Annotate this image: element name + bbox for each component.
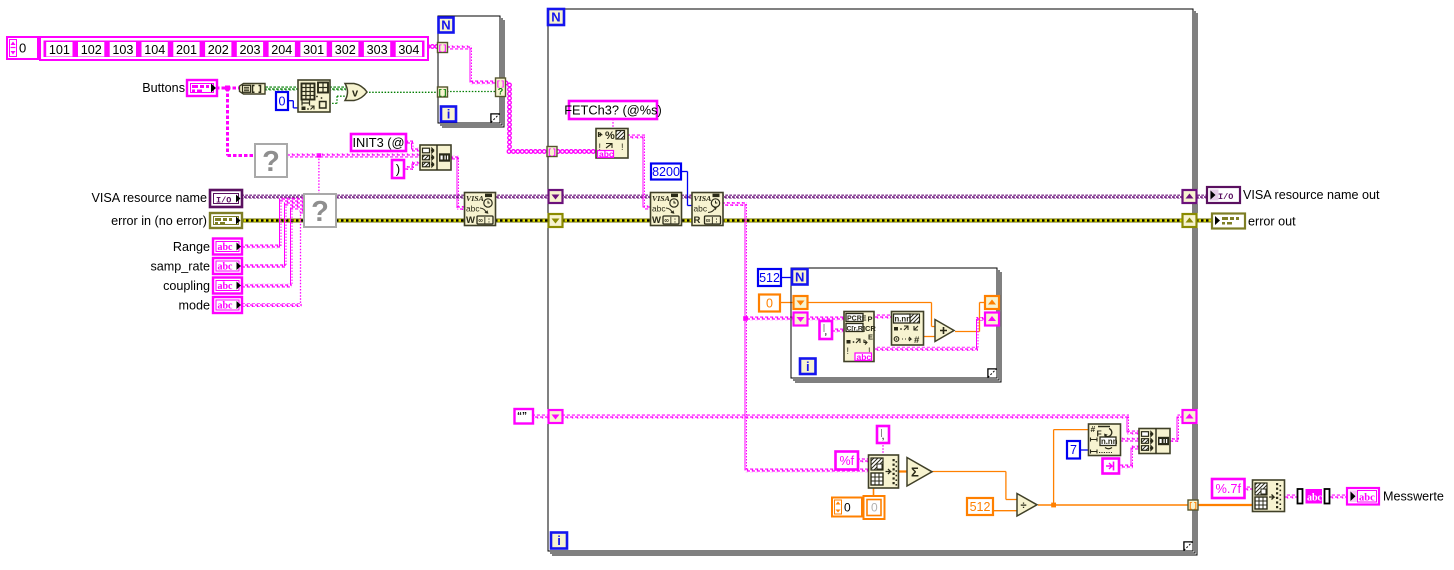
wire: read buffer to Spreadsheet String To Array — [746, 469, 870, 473]
wire: error VISA Write 1 to left shift register — [495, 219, 549, 223]
svg-text:?: ? — [498, 87, 504, 97]
small for-loop left tunnel (boolean) — [438, 87, 448, 98]
svg-text:#: # — [1091, 424, 1096, 434]
main for-loop frame — [548, 9, 1197, 555]
wire: string to Messwerte — [1328, 495, 1348, 499]
wire: string shift register to Match Pattern — [806, 317, 845, 321]
function Concatenate Strings 3 — [1139, 429, 1170, 454]
array constant 0 (array type) — [832, 496, 885, 519]
wire: %f format to Spreadsheet String To Array — [857, 458, 869, 462]
small for-loop iteration terminal i — [441, 107, 456, 122]
main loop tunnel mean array out — [1188, 500, 1198, 511]
wire: Or output into small for-loop — [366, 91, 438, 93]
svg-text:abc: abc — [218, 242, 234, 253]
svg-text:VISA: VISA — [694, 194, 712, 203]
wire: 7 precision to Number To Fractional String — [1079, 449, 1089, 451]
function Array To Spreadsheet String — [1253, 480, 1285, 512]
wire: accumulated text shift register to Concatenate 3 — [562, 415, 1139, 435]
svg-text:INIT3 (@: INIT3 (@ — [352, 135, 404, 150]
function Spreadsheet String To Array — [869, 455, 899, 488]
svg-text:304: 304 — [398, 43, 419, 57]
svg-text:N: N — [551, 10, 560, 25]
control terminal coupling — [163, 278, 242, 294]
inner for-loop count terminal N — [792, 269, 808, 285]
function Concatenate Strings 1 — [420, 145, 451, 170]
inner loop left shift register sum — [794, 296, 808, 309]
svg-text:“”: “” — [517, 411, 527, 422]
wire: INIT3 constant to Concatenate Strings — [405, 141, 421, 152]
wire: close-paren constant to Concatenate Strings — [404, 162, 421, 171]
wire: blue 0 to Search 1D Array — [287, 101, 299, 108]
control terminal Range — [173, 239, 242, 255]
function Add — [935, 320, 954, 342]
wire: 512 to inner loop count — [780, 277, 793, 279]
main for-loop count terminal N — [548, 9, 564, 25]
svg-text:0: 0 — [871, 501, 878, 515]
wire: error in to VISA Write 1 — [241, 219, 465, 223]
wire: error right shift register to error out — [1196, 219, 1213, 223]
wire: Buttons branch down to unknown VI 1 — [228, 88, 257, 156]
wire: FETCh3 constant to Format Into String 2 — [612, 119, 614, 129]
wire: mode to unknown VI 2 — [241, 210, 305, 308]
string constant empty — [515, 409, 534, 424]
svg-text:abc: abc — [218, 281, 234, 292]
svg-text:mode: mode — [178, 299, 210, 313]
wire: bool array to Search 1D Array — [264, 87, 299, 91]
svg-text:∞|:: ∞|: — [706, 217, 719, 225]
main loop right shift register error — [1183, 214, 1197, 227]
indicator terminal Messwerte — [1347, 488, 1444, 505]
svg-text:samp_rate: samp_rate — [150, 260, 210, 274]
svg-text:VISA resource name: VISA resource name — [91, 191, 207, 205]
svg-text:[]: [] — [438, 89, 448, 98]
function Or (array elements) — [345, 84, 367, 101]
svg-text:abc: abc — [218, 301, 234, 312]
wire: channel array to small for-loop tunnel — [426, 45, 438, 49]
small for-loop left tunnel (channel array) — [438, 43, 448, 54]
svg-text:?: ? — [262, 146, 280, 178]
svg-text:Messwerte: Messwerte — [1383, 490, 1444, 504]
wire: VISA resource VISA Write 1 to left shift register — [495, 195, 549, 199]
svg-text:!: ! — [847, 346, 850, 356]
svg-text:i: i — [447, 107, 451, 122]
svg-text:7: 7 — [1070, 443, 1077, 457]
main loop right shift register text — [1183, 410, 1197, 423]
constant 512 divisor — [967, 498, 993, 515]
wire: mean array tunnel to Array To Spreadsheet String — [1197, 504, 1253, 506]
svg-text:W: W — [466, 215, 475, 226]
svg-text:202: 202 — [208, 43, 229, 57]
main for-loop iteration terminal i — [551, 533, 567, 549]
wire: number array to Sum — [897, 470, 907, 472]
function Match Pattern — [844, 312, 876, 363]
main loop left shift register error — [549, 214, 563, 227]
svg-text:?: ? — [311, 196, 329, 228]
svg-text:C[r,R]: C[r,R] — [847, 326, 866, 333]
svg-text:VISA: VISA — [466, 194, 484, 203]
inner for-loop frame — [791, 268, 1001, 382]
wire: VISA resource right shift register to indicator — [1196, 195, 1208, 199]
svg-text:i: i — [806, 359, 810, 374]
wire: 512 divisor to Divide — [992, 510, 1017, 512]
svg-text:n.nn: n.nn — [895, 315, 912, 324]
svg-text:0: 0 — [766, 296, 773, 310]
wire: Add output to right shift register — [955, 303, 986, 332]
svg-text:Σ: Σ — [911, 465, 919, 480]
svg-text:i: i — [557, 533, 561, 548]
svg-text:abc: abc — [466, 204, 480, 214]
svg-text:n.nn: n.nn — [1101, 437, 1118, 446]
wire: channel array from small loop to main loop tunnel — [504, 81, 546, 153]
unknown subVI 2 (question mark) — [304, 194, 336, 228]
svg-text:abc: abc — [1359, 492, 1375, 503]
svg-text:I/O: I/O — [1218, 192, 1233, 202]
VISA Read — [692, 193, 723, 227]
control terminal mode — [178, 297, 242, 313]
constant 0 (search element) — [276, 92, 288, 110]
svg-text:103: 103 — [112, 43, 133, 57]
svg-text:102: 102 — [81, 43, 102, 57]
svg-text:%f: %f — [839, 454, 854, 468]
wire: comma delimiter to Spreadsheet String To Array — [882, 442, 884, 456]
svg-text:101: 101 — [49, 43, 70, 57]
svg-text:abc: abc — [599, 149, 614, 159]
constant 7 precision — [1067, 441, 1080, 459]
wire: spreadsheet string to array indicator glyph — [1283, 495, 1298, 499]
wire: concatenated text to right shift register — [1170, 415, 1183, 443]
indicator terminal error out — [1212, 214, 1296, 229]
wire: VISA resource inside main loop — [562, 195, 1183, 199]
constant 0 sum init — [759, 295, 780, 312]
string constant comma (match) — [820, 321, 833, 339]
wire: Range to unknown VI 2 — [241, 198, 305, 249]
wire: concatenated INIT command to VISA Write 1 — [450, 156, 465, 211]
svg-text:0: 0 — [19, 41, 26, 56]
string constant FETCh3? (@%s) — [564, 101, 662, 119]
svg-text:512: 512 — [970, 500, 991, 514]
svg-text:VISA resource name out: VISA resource name out — [1243, 188, 1380, 202]
svg-text:error out: error out — [1248, 215, 1296, 229]
string constant INIT3 (@ — [351, 134, 406, 151]
VISA Write 2 (FETCH command) — [651, 193, 682, 227]
svg-text:%.7f: %.7f — [1215, 481, 1241, 496]
wire: comma constant to Match Pattern — [831, 329, 845, 333]
svg-text:∞|:: ∞|: — [479, 217, 492, 225]
svg-text:N: N — [441, 18, 450, 33]
svg-text:VISA: VISA — [652, 194, 670, 203]
wire: 0 to orange shift register — [780, 302, 794, 304]
small for-loop frame — [438, 16, 504, 127]
svg-text:abc: abc — [1307, 493, 1323, 504]
wire: remaining string to right shift register — [873, 317, 986, 351]
svg-text:I/O: I/O — [216, 195, 231, 205]
svg-text:203: 203 — [239, 43, 260, 57]
wire: unknown VI 1 output to Concatenate Strings — [287, 153, 421, 157]
wire: channel array tunnel to Format Into String — [556, 150, 595, 154]
main loop left shift register VISA — [549, 190, 563, 203]
control terminal error in (no error) — [111, 213, 242, 228]
wire: search result bool to Or gate — [329, 96, 346, 103]
channel list array constant 101-304 — [40, 37, 428, 60]
wire: boolean through small for-loop — [447, 91, 496, 93]
function Sum (add array elements) — [907, 458, 932, 487]
array index selector 0 — [7, 37, 38, 59]
string constant %.7f — [1212, 479, 1245, 498]
wire: VISA resource name to unknown VI 2 — [241, 195, 305, 199]
svg-text:Range: Range — [173, 240, 210, 254]
svg-text:0: 0 — [279, 94, 286, 108]
constant 8200 byte count — [651, 164, 681, 180]
wire: formatted FETCH command to VISA Write 2 — [627, 135, 651, 210]
svg-text:Buttons: Buttons — [142, 81, 185, 95]
svg-text:coupling: coupling — [163, 279, 210, 293]
svg-text:!: ! — [621, 142, 624, 152]
svg-text:N: N — [795, 269, 804, 284]
control terminal VISA resource name — [91, 190, 242, 207]
wire: 8200 byte count to VISA Read — [681, 172, 693, 206]
svg-text:abc: abc — [652, 204, 666, 214]
svg-text:abc: abc — [694, 204, 708, 214]
wire: Sum to Divide — [932, 472, 1017, 500]
wire: sum shift register to Add — [806, 303, 935, 327]
svg-text:201: 201 — [176, 43, 197, 57]
inner loop left shift register string — [794, 313, 808, 326]
svg-text:#: # — [914, 335, 920, 346]
svg-text:∞|:: ∞|: — [665, 217, 678, 225]
function Format Into String (FETCH command) — [596, 129, 628, 160]
wire: samp_rate to unknown VI 2 — [241, 202, 305, 269]
svg-text:[]: [] — [547, 149, 557, 158]
svg-text:301: 301 — [303, 43, 324, 57]
end of line constant — [1103, 459, 1120, 474]
wire: bool array to Or gate — [329, 87, 346, 91]
string constant %f — [836, 452, 859, 470]
svg-text:104: 104 — [144, 43, 165, 57]
wire: end-of-line constant to Concatenate 3 — [1118, 446, 1139, 469]
string constant close-paren — [392, 160, 404, 178]
svg-text:E: E — [868, 333, 873, 342]
function Number To Fractional String — [1089, 424, 1121, 456]
unknown subVI 1 (question mark) — [255, 144, 287, 178]
wire: mean value net — [1038, 430, 1190, 508]
svg-text:%: % — [605, 130, 615, 142]
svg-text:abc: abc — [218, 262, 234, 273]
svg-text:W: W — [652, 215, 661, 226]
function Fract/Exp String To Number — [892, 312, 924, 347]
svg-text:P: P — [868, 315, 873, 324]
svg-text:v: v — [352, 88, 359, 100]
VISA Write 1 (init command) — [465, 193, 496, 227]
wire: read buffer to inner loop shift register — [746, 317, 795, 321]
inner for-loop iteration terminal i — [800, 359, 816, 375]
wire: %.7f format to Array To Spreadsheet String — [1243, 487, 1253, 491]
svg-text:): ) — [396, 161, 400, 176]
svg-text:302: 302 — [335, 43, 356, 57]
wire: coupling to unknown VI 2 — [241, 206, 305, 288]
function Search 1D Array — [298, 80, 330, 112]
svg-text:512: 512 — [759, 271, 780, 285]
main loop right shift register VISA — [1183, 190, 1197, 203]
wire: converted number to Add — [923, 336, 935, 338]
wire: error inside main loop — [562, 219, 1183, 223]
wire: branch down to unknown VI 2 — [318, 156, 320, 195]
wire: fractional string to Concatenate 3 — [1119, 438, 1139, 442]
svg-text:0: 0 — [844, 501, 851, 515]
svg-text:[]: [] — [1188, 502, 1198, 511]
wire: orange array type to Spreadsheet String To Array — [873, 488, 875, 497]
control terminal Buttons — [142, 80, 217, 96]
svg-text:PCRE: PCRE — [847, 316, 867, 323]
svg-text:FETCh3? (@%s): FETCh3? (@%s) — [564, 102, 662, 117]
svg-text:,: , — [824, 325, 827, 337]
svg-text:error in (no error): error in (no error) — [111, 214, 207, 228]
svg-text:303: 303 — [367, 43, 388, 57]
svg-text:÷: ÷ — [1021, 500, 1027, 512]
indicator terminal VISA resource name out — [1207, 187, 1380, 203]
wire: VISA Read buffer down — [721, 202, 748, 471]
function Divide — [1017, 494, 1037, 517]
wire: Buttons cluster to Cluster-to-Array — [216, 86, 241, 91]
constant 512 inner count — [758, 269, 781, 286]
inner loop right shift register sum — [985, 296, 999, 309]
wire: empty string constant to shift register — [532, 415, 549, 419]
main loop left shift register text — [549, 410, 563, 423]
svg-text:abc: abc — [857, 352, 872, 362]
wire: VISA resource unknown VI 2 to VISA Write 1 — [335, 195, 465, 199]
inner loop right shift register string — [985, 313, 999, 326]
svg-text:[]: [] — [438, 45, 448, 54]
function Cluster To Boolean Array — [240, 84, 266, 95]
wire: matched substring to Fract/Exp String To Number — [873, 315, 893, 319]
main loop tunnel channel array in — [547, 147, 557, 158]
wire: indexed channel string inside small loop — [446, 46, 496, 85]
array-of-strings coercion glyph — [1298, 489, 1330, 504]
svg-text:R: R — [694, 215, 701, 226]
string constant comma delimiter — [877, 426, 889, 443]
small for-loop count terminal N — [439, 18, 454, 33]
control terminal samp_rate — [150, 258, 242, 274]
small for-loop right tunnel (indexed string / conditional) — [496, 78, 506, 97]
svg-text:8200: 8200 — [652, 165, 680, 179]
svg-text:204: 204 — [271, 43, 292, 57]
